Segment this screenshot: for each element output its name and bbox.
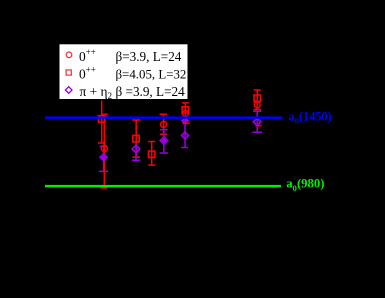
group5 red bottom cap: [182, 122, 190, 124]
svg-text:π + η2: π + η2: [80, 84, 113, 101]
group6 red errorbar: [254, 90, 262, 126]
group1 square errorbar: [98, 100, 105, 143]
group4 circle marker: [161, 121, 167, 127]
group6 diamond errorbar: [252, 111, 262, 132]
group1 square marker: [99, 116, 105, 122]
group1 circle marker: [101, 145, 107, 151]
svg-text:a0(980): a0(980): [286, 177, 324, 193]
group1 diamond errorbar: [99, 146, 108, 171]
group5 red errorbar: [182, 103, 190, 123]
group2 diamond errorbar: [132, 143, 141, 160]
legend row2 square symbol: [66, 70, 71, 75]
group2 square errorbar: [132, 120, 140, 157]
group3 square marker: [149, 151, 155, 157]
legend row1 circle symbol: [66, 52, 72, 58]
group4 circle errorbar: [160, 114, 168, 134]
group2 diamond marker: [132, 145, 140, 153]
svg-text:β=3.9, L=24: β=3.9, L=24: [116, 49, 182, 64]
group6 circle marker: [254, 102, 260, 108]
group1 circle errorbar: [100, 114, 108, 188]
group5 circle marker: [182, 111, 188, 117]
group4 diamond marker: [160, 136, 168, 144]
group5 upper diamond marker: [182, 117, 189, 124]
group5 square marker: [182, 107, 188, 113]
group5 diamond errorbar: [181, 121, 188, 148]
reference line a0(980): [45, 185, 281, 188]
legend box: [60, 44, 188, 99]
group5 lower diamond marker: [182, 132, 189, 139]
group4 diamond errorbar: [160, 130, 168, 153]
reference line a0(1450): [45, 116, 282, 119]
svg-text:β =3.9, L=24: β =3.9, L=24: [116, 84, 186, 99]
group1 diamond marker: [100, 153, 108, 161]
group2 square marker: [133, 135, 139, 141]
svg-text:β=4.05, L=32: β=4.05, L=32: [116, 68, 187, 82]
group3 square errorbar: [148, 142, 155, 166]
group6 diamond marker: [253, 118, 261, 126]
group6 square marker: [254, 95, 260, 101]
legend row3 diamond symbol: [65, 87, 72, 94]
